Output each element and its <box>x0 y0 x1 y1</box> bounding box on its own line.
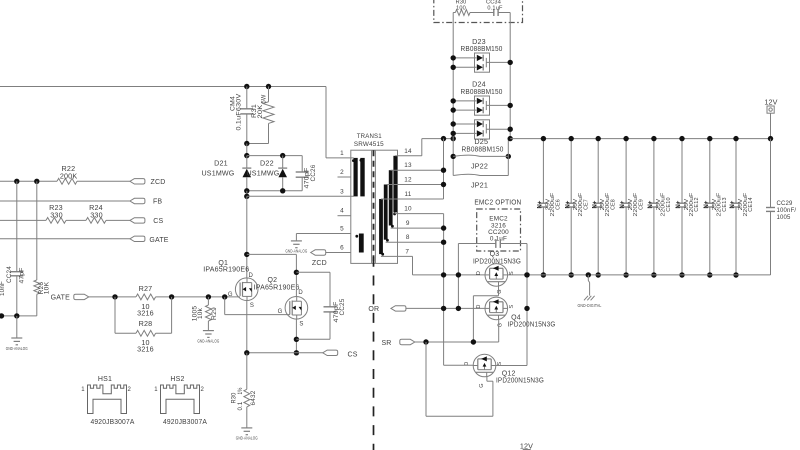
svg-text:N+: N+ <box>647 201 654 209</box>
svg-text:0.1: 0.1 <box>237 401 244 410</box>
svg-text:12: 12 <box>404 177 412 184</box>
wire pins 13-12-11 vertical <box>443 139 445 199</box>
junction Q2 gate tap <box>222 294 227 299</box>
svg-text:GATE: GATE <box>149 237 168 244</box>
wire Q12 gate loop <box>425 342 427 416</box>
wire pin5 to analog ground <box>296 233 350 235</box>
pin 11 wire <box>381 198 444 200</box>
capacitor CC26 470pF <box>301 156 303 172</box>
svg-text:5W: 5W <box>261 95 268 104</box>
svg-text:G: G <box>228 292 233 298</box>
junction analog return <box>14 313 19 318</box>
junction ZCD row x16.8 <box>14 179 19 184</box>
svg-text:100: 100 <box>456 6 466 12</box>
node clamp top rail <box>244 153 249 158</box>
svg-text:CE13: CE13 <box>722 197 728 211</box>
pin 8 wire <box>386 241 444 243</box>
capacitor CC24 47pF <box>16 181 18 271</box>
capacitor CE14 2200uF 25V <box>735 139 737 204</box>
resistor R28 10 3216 parallel branch <box>114 297 116 333</box>
wire pins 10-9-8 vertical to SR drains <box>443 214 445 366</box>
transistor Q1 IPA65R190E6 <box>235 278 258 301</box>
svg-text:GND-DIGITAL: GND-DIGITAL <box>578 303 602 308</box>
wire jumper right leg <box>507 139 509 176</box>
ground GND-DIGITAL <box>586 272 591 277</box>
svg-text:1005: 1005 <box>777 215 792 221</box>
svg-text:R27: R27 <box>139 284 153 293</box>
resistor R31 20K 5W <box>268 87 270 102</box>
snubber option box R30/CC34 <box>434 0 523 23</box>
junction gate drive split <box>112 294 117 299</box>
junction EMC2 left leg on drain rail <box>456 272 461 277</box>
junction SR to Q12 gate loop <box>423 339 428 344</box>
capacitor CE12 2200uF 25V <box>681 139 683 204</box>
wire snubber to clamp diodes <box>246 144 248 156</box>
svg-text:0.1uF: 0.1uF <box>487 6 503 12</box>
secondary winding bar pins 12-8 <box>384 185 388 240</box>
svg-text:5: 5 <box>340 225 344 232</box>
svg-text:CC26: CC26 <box>310 164 317 181</box>
svg-text:IPA65R190E6: IPA65R190E6 <box>203 265 249 274</box>
svg-text:10nF: 10nF <box>0 281 6 296</box>
junction SR to Q3 gate <box>471 339 476 344</box>
wire pin14 up to winding bus <box>421 139 423 156</box>
jumper JP21 <box>453 174 508 175</box>
wire secondary return rail <box>508 274 771 276</box>
aux winding bar pins 5-6 <box>359 234 364 253</box>
svg-text:CS: CS <box>153 218 163 225</box>
svg-text:FB: FB <box>153 199 162 206</box>
junction Q2 source on CS rail <box>294 350 299 355</box>
capacitor CE7 2200uF 25V <box>570 139 572 204</box>
svg-text:RB088BM150: RB088BM150 <box>461 44 503 53</box>
svg-text:3216: 3216 <box>137 309 154 318</box>
svg-text:N+: N+ <box>619 201 626 209</box>
wire to Q2 gate <box>224 297 226 315</box>
junction Q1 drain tap to Q2 drain <box>244 252 249 257</box>
junction ZCD node <box>294 270 299 275</box>
svg-text:N+: N+ <box>537 201 544 209</box>
junction Q1 source on CS rail <box>244 350 249 355</box>
pin 13 wire <box>391 169 444 171</box>
wire pin7 down to rectifier return rail <box>412 256 414 275</box>
svg-text:IPA65R190E6: IPA65R190E6 <box>254 283 300 292</box>
junction cathode bus to 12V rail <box>508 136 513 141</box>
svg-text:11: 11 <box>405 191 412 198</box>
junction pin8 <box>441 240 446 245</box>
svg-text:CE8: CE8 <box>610 199 616 210</box>
svg-text:SRW4515: SRW4515 <box>354 141 384 148</box>
svg-text:GATE: GATE <box>51 295 70 302</box>
wire EMC2 right leg / source bus <box>526 244 528 366</box>
svg-text:CE9: CE9 <box>638 199 644 210</box>
anode feed vertical <box>452 13 454 176</box>
svg-text:GND-ANALOG: GND-ANALOG <box>197 338 219 343</box>
capacitor CM4 0.1uF630V <box>246 87 248 109</box>
pin 14 wire <box>395 155 422 157</box>
svg-text:4: 4 <box>340 208 344 215</box>
wire OR to Q4 drain <box>406 307 485 309</box>
svg-text:47pF: 47pF <box>18 267 25 283</box>
svg-text:20K: 20K <box>257 104 264 119</box>
resistor R29 10k 1005 <box>207 297 209 305</box>
svg-text:D: D <box>476 304 482 308</box>
junction CM4/R31 bottom <box>244 141 249 146</box>
svg-text:9: 9 <box>406 220 410 227</box>
svg-text:IPD200N15N3G: IPD200N15N3G <box>496 375 544 384</box>
svg-text:S: S <box>299 322 303 328</box>
wire after R27 <box>156 296 241 298</box>
svg-text:SR: SR <box>381 340 391 347</box>
junction on top bus at CM4 <box>244 84 249 89</box>
wire Q3 gate to SR line <box>498 286 500 296</box>
junction 12V port on rail <box>768 136 773 141</box>
connector flag FB <box>130 198 145 203</box>
svg-text:CE6: CE6 <box>556 199 562 210</box>
ground GND-ANALOG under R30 <box>241 427 252 429</box>
wire Q2 drain up to ZCD node <box>295 272 297 296</box>
connector flag GATE <box>130 236 145 241</box>
svg-text:CE14: CE14 <box>748 197 754 212</box>
junction ZCD row x36.8 <box>34 179 39 184</box>
wire Q12 source to bus <box>496 365 527 367</box>
winding polarity dots secondary <box>393 213 396 216</box>
svg-text:ZCD: ZCD <box>151 179 166 186</box>
clamp bottom rail <box>247 190 302 192</box>
svg-text:CC25: CC25 <box>339 298 346 315</box>
svg-text:13: 13 <box>404 162 412 169</box>
svg-text:RB088BM150: RB088BM150 <box>462 144 504 153</box>
svg-text:N+: N+ <box>591 201 598 209</box>
svg-text:GND-ANALOG: GND-ANALOG <box>236 436 258 441</box>
svg-text:14: 14 <box>404 148 412 155</box>
junction CC25 return <box>294 337 299 342</box>
wire SR line <box>415 341 499 343</box>
wire drain vertical to Q12 <box>444 364 474 366</box>
junction SR source bus on return rail <box>524 272 529 277</box>
svg-text:RB088BM150: RB088BM150 <box>461 87 503 96</box>
svg-text:IPD200N15N3G: IPD200N15N3G <box>508 320 556 329</box>
transistor Q12 IPD200N15N3G <box>473 354 496 377</box>
svg-text:R29: R29 <box>211 307 218 320</box>
capacitor CE8 2200uF 25V <box>597 139 599 204</box>
svg-text:OR: OR <box>368 306 379 313</box>
svg-text:ZCD: ZCD <box>312 260 327 267</box>
svg-text:4920JB3007A: 4920JB3007A <box>91 417 135 426</box>
capacitor CC29 100nF 1005 <box>770 139 772 208</box>
svg-text:JP22: JP22 <box>471 162 488 171</box>
svg-text:S: S <box>250 303 254 309</box>
svg-text:10k: 10k <box>197 307 204 319</box>
svg-text:12V: 12V <box>520 442 533 450</box>
svg-text:2: 2 <box>201 387 205 393</box>
wire gate drive <box>89 296 136 298</box>
svg-text:1%: 1% <box>237 387 244 394</box>
wire CC34 to cathode bus <box>498 12 510 14</box>
svg-text:2: 2 <box>128 387 132 393</box>
capacitor CE13 2200uF 25V <box>709 139 711 204</box>
pin 2 stub <box>338 176 351 178</box>
svg-text:330: 330 <box>50 211 63 220</box>
svg-text:100nF/: 100nF/ <box>777 208 797 214</box>
svg-text:HS2: HS2 <box>170 376 184 383</box>
junction winding bus anode feed <box>451 136 456 141</box>
junction pin9 <box>441 225 446 230</box>
svg-text:10: 10 <box>404 206 412 213</box>
wire top bus to transformer pin 1 <box>0 86 326 88</box>
junction pin12 <box>441 182 446 187</box>
wire Q2 source down <box>295 319 297 353</box>
svg-text:JP21: JP21 <box>471 180 488 189</box>
svg-text:R30: R30 <box>456 0 467 6</box>
secondary winding bar pins 14-10 <box>393 156 397 213</box>
junction Q4 source bus <box>524 306 529 311</box>
wire FB row <box>0 200 130 202</box>
wire CS rail <box>247 352 323 354</box>
svg-text:G: G <box>479 383 485 387</box>
svg-text:330: 330 <box>90 211 103 220</box>
svg-text:200K: 200K <box>60 172 78 181</box>
svg-text:2: 2 <box>340 169 344 176</box>
svg-text:4920JB3007A: 4920JB3007A <box>163 417 207 426</box>
secondary winding bar pins 13-9 <box>389 170 393 225</box>
junction winding bus pins13-11 feed <box>441 136 446 141</box>
junction Q3 source on return rail <box>524 272 529 277</box>
connector flag CS sense <box>323 350 338 355</box>
svg-text:8: 8 <box>406 234 410 241</box>
svg-text:1: 1 <box>340 150 344 157</box>
svg-text:US1MWG: US1MWG <box>202 169 235 178</box>
diode D25 RB088BM150 <box>475 120 490 139</box>
svg-text:CC29: CC29 <box>777 201 794 207</box>
connector flag ZCD <box>130 179 145 184</box>
junction on top bus at R31 <box>266 84 271 89</box>
svg-text:0.1uF630V: 0.1uF630V <box>236 93 243 131</box>
svg-text:1: 1 <box>154 387 158 393</box>
cathode bus vertical <box>509 13 511 139</box>
capacitor CE10 2200uF 25V <box>653 139 655 204</box>
resistor R30 100 (snubber) <box>453 12 455 14</box>
svg-text:S: S <box>497 362 503 366</box>
wire analog return bottom-left <box>0 315 37 317</box>
svg-text:TRANS1: TRANS1 <box>357 133 382 140</box>
resistor R27 10 3216 <box>136 294 156 300</box>
wire ZCD row <box>0 180 57 182</box>
resistor R30 0.1 1% 6432 shunt <box>246 353 248 390</box>
svg-text:HS1: HS1 <box>98 376 112 383</box>
svg-text:D21: D21 <box>214 158 228 167</box>
junction R29 tap <box>206 294 211 299</box>
isolation barrier dashed line <box>373 257 375 450</box>
resistor R24 330 <box>86 218 106 224</box>
junction OR wire at drain vertical <box>441 306 446 311</box>
diode D22 US1MWG <box>282 156 284 169</box>
transistor Q4 IPD200N15N3G <box>485 297 508 320</box>
capacitor CE9 2200uF 25V <box>625 139 627 204</box>
svg-text:CE12: CE12 <box>694 197 700 211</box>
pin 12 wire <box>386 184 444 186</box>
connector flag CS <box>130 218 145 223</box>
capacitor CC25 470pF <box>324 306 337 308</box>
svg-text:N+: N+ <box>675 201 682 209</box>
transistor Q2 IPA65R190E6 <box>285 297 308 320</box>
svg-text:R28: R28 <box>139 319 153 328</box>
svg-text:S: S <box>509 271 515 275</box>
svg-text:S: S <box>509 304 515 308</box>
jumper JP22 <box>451 154 456 159</box>
svg-text:D: D <box>298 290 303 296</box>
ground GND-ANALOG bottom-left <box>16 316 18 338</box>
svg-text:CE7: CE7 <box>583 199 589 210</box>
svg-text:GND-ANALOG: GND-ANALOG <box>285 249 307 254</box>
resistor R22 200K <box>57 178 77 184</box>
capacitor CE6 2200uF 25V <box>542 139 544 204</box>
svg-text:D: D <box>249 273 254 279</box>
pin 4 stub <box>338 215 351 217</box>
diode D21 US1MWG <box>246 156 248 169</box>
svg-text:CE10: CE10 <box>666 197 672 211</box>
svg-text:N+: N+ <box>729 201 736 209</box>
wire Q4 gate down to SR line <box>498 320 500 342</box>
wire Q1 source to CS rail <box>246 301 248 353</box>
wire pin6 to ZCD flag <box>326 252 351 254</box>
svg-text:IPD200N15N3G: IPD200N15N3G <box>473 257 521 266</box>
svg-text:12V: 12V <box>764 97 777 106</box>
svg-text:G: G <box>497 289 503 293</box>
svg-text:10K: 10K <box>44 281 51 294</box>
svg-text:0.1uF: 0.1uF <box>490 236 507 243</box>
ground GND-ANALOG at pin5 <box>295 234 297 241</box>
wire GATE row <box>0 238 130 240</box>
junction after R27 <box>169 294 174 299</box>
secondary winding bar pins 11-7 <box>379 199 383 254</box>
svg-text:N+: N+ <box>703 201 710 209</box>
wire CS row <box>0 219 46 221</box>
svg-text:EMC2 OPTION: EMC2 OPTION <box>474 198 521 207</box>
resistor R23 330 <box>46 218 66 224</box>
svg-text:CS: CS <box>347 351 357 358</box>
junction pin13 <box>441 168 446 173</box>
wire Q1 drain to Q2 drain <box>247 253 297 255</box>
svg-text:3: 3 <box>340 188 344 195</box>
wire to transformer pin 3 <box>246 191 248 197</box>
wire drain Q1 rising to clamp <box>246 196 248 278</box>
svg-text:6: 6 <box>340 244 344 251</box>
svg-text:GND-ANALOG: GND-ANALOG <box>6 346 28 351</box>
pin 7 wire <box>381 255 413 257</box>
svg-text:G: G <box>278 309 283 315</box>
primary winding bars pins 1-3 <box>354 158 358 197</box>
svg-text:CC24: CC24 <box>6 266 13 283</box>
pin 10 wire <box>395 213 444 215</box>
wire 12V rail <box>510 138 770 140</box>
connector flag ZCD secondary <box>311 250 326 255</box>
svg-text:N+: N+ <box>564 201 571 209</box>
svg-text:7: 7 <box>405 248 409 255</box>
wire ZCD node to CC25 <box>296 271 330 273</box>
svg-text:CC34: CC34 <box>486 0 501 6</box>
wire R30 to CC34 <box>470 12 494 14</box>
resistor R26 10K <box>36 181 38 280</box>
capacitor CC34 0.1uF <box>493 9 495 16</box>
svg-text:US1MWG: US1MWG <box>247 169 280 178</box>
svg-text:3216: 3216 <box>137 344 154 353</box>
transformer core <box>371 150 373 263</box>
svg-text:1: 1 <box>81 387 85 393</box>
junction OR wire at EMC2 leg <box>456 306 461 311</box>
pin 9 wire <box>391 227 444 229</box>
junction drain bus at pins8-9 feed <box>441 272 446 277</box>
svg-text:D: D <box>476 271 482 275</box>
wire EMC2 left leg <box>457 244 459 309</box>
svg-text:D22: D22 <box>260 158 274 167</box>
ground GND-ANALOG under R29 <box>203 330 214 332</box>
svg-text:6432: 6432 <box>250 390 257 405</box>
